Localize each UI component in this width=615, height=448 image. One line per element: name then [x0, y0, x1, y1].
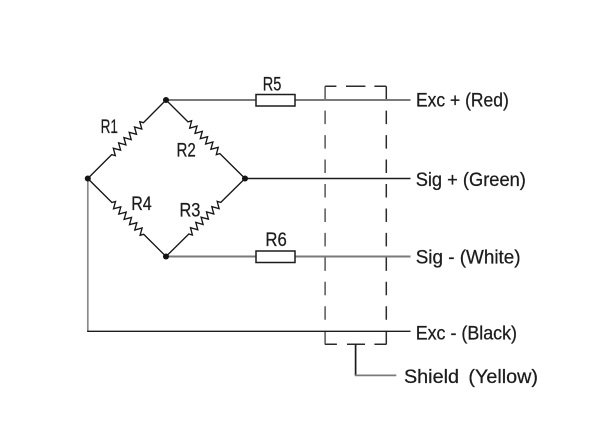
svg-text:R6: R6: [265, 230, 286, 251]
svg-text:Sig + (Green): Sig + (Green): [416, 170, 526, 191]
wire Sig+ (right node to Sig + label): [245, 178, 411, 180]
svg-text:R2: R2: [177, 141, 196, 162]
resistor R6 (box in Sig- line): [256, 251, 295, 263]
resistor R2 (top-right bridge arm): [166, 100, 245, 179]
shield tap wire (horizontal to Shield label): [355, 374, 397, 376]
svg-text:R3: R3: [180, 201, 201, 222]
wire Exc- vertical drop from left node: [87, 179, 89, 332]
resistor R5 (box in Exc+ line): [256, 95, 295, 107]
node left (junction dot): [85, 175, 91, 181]
svg-text:Exc - (Black): Exc - (Black): [416, 323, 517, 344]
svg-text:Sig - (White): Sig - (White): [416, 248, 521, 269]
svg-text:Shield (Yellow): Shield (Yellow): [404, 367, 538, 388]
cable shield boundary right edge (dashed): [385, 86, 387, 344]
resistor R3 (bottom-right bridge arm): [166, 179, 245, 257]
node right (junction dot): [242, 175, 248, 181]
cable shield boundary left edge (dashed): [324, 86, 326, 344]
node bottom (junction dot): [163, 253, 169, 259]
wire Exc- bottom run to Exc - label: [87, 330, 410, 332]
resistor R1 (top-left bridge arm): [88, 100, 166, 179]
node top (junction dot): [163, 97, 169, 103]
wire Exc+ (top node to Exc + label): [166, 99, 411, 101]
svg-text:R4: R4: [131, 194, 152, 215]
svg-text:Exc + (Red): Exc + (Red): [416, 91, 509, 112]
resistor R4 (bottom-left bridge arm): [88, 179, 166, 257]
cable shield boundary top edge (dashed): [325, 85, 386, 87]
shield tap wire (vertical from shield boundary): [355, 344, 357, 375]
svg-text:R1: R1: [101, 117, 118, 138]
svg-text:R5: R5: [263, 75, 282, 96]
wire Sig- (bottom node to Sig - label): [166, 256, 411, 258]
cable shield boundary bottom edge (dashed): [325, 343, 387, 345]
